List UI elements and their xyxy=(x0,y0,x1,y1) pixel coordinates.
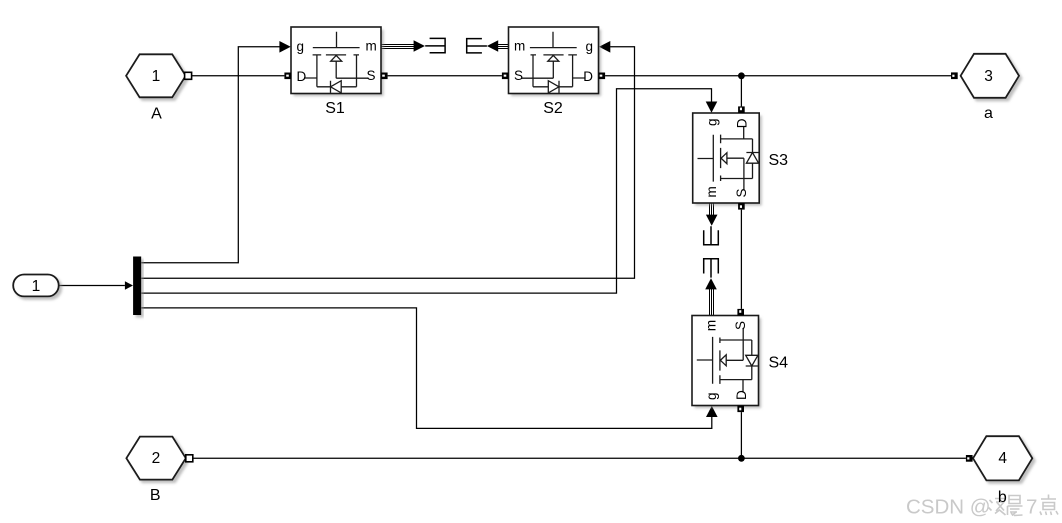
S1 port D square xyxy=(284,73,291,80)
svg-text:3: 3 xyxy=(984,68,993,85)
wire S3 S to S4 S xyxy=(740,210,742,309)
wire inport1 to demux xyxy=(59,281,133,290)
svg-text:S2: S2 xyxy=(543,100,563,117)
mosfet S1 xyxy=(291,27,381,117)
svg-text:2: 2 xyxy=(152,450,161,467)
open connector bracket left of S2 xyxy=(467,39,487,53)
demux xyxy=(133,257,141,316)
svg-text:CSDN @: CSDN @ xyxy=(906,496,991,519)
S3 m output bus and arrow xyxy=(706,203,718,225)
S3 port S square xyxy=(738,203,745,210)
inport 1 (stadium) xyxy=(13,275,59,297)
wire demux out3 to S3 g xyxy=(141,89,717,293)
S2 m output bus and arrow xyxy=(487,40,509,52)
port a hexagon 3 xyxy=(951,54,1019,122)
mosfet S3 (rotated) xyxy=(693,113,788,203)
port B hexagon 2 xyxy=(126,437,192,505)
svg-text:S1: S1 xyxy=(325,100,345,117)
node junction bottom xyxy=(738,455,745,462)
svg-text:a: a xyxy=(984,105,993,122)
watermark CSDN xyxy=(906,495,1058,519)
svg-text:7: 7 xyxy=(1026,496,1037,519)
svg-text:B: B xyxy=(150,487,161,504)
S4 port S square xyxy=(737,309,744,316)
open connector bracket right of S1 xyxy=(425,38,445,52)
svg-text:4: 4 xyxy=(998,450,1007,467)
S2 port D square xyxy=(599,73,606,80)
port A hexagon 1 xyxy=(126,54,192,122)
open connector bracket below S3 xyxy=(704,226,719,245)
mosfet S2 xyxy=(509,27,599,117)
S4 port D square xyxy=(737,406,744,413)
S4 m output bus and arrow xyxy=(705,278,717,315)
S1 m output bus and arrow xyxy=(381,40,425,52)
port b hexagon 4 xyxy=(966,436,1032,506)
S3 port D square xyxy=(738,106,745,113)
mosfet S4 (rotated) xyxy=(692,316,788,406)
svg-text:S4: S4 xyxy=(769,354,789,371)
svg-text:A: A xyxy=(151,106,162,123)
svg-text:1: 1 xyxy=(32,278,41,295)
S1 port S square xyxy=(381,73,388,80)
wire demux out1 to S1 g xyxy=(141,41,291,263)
S2 port S square xyxy=(502,73,509,80)
wire S4 D to bottom rail xyxy=(740,412,742,458)
wire demux out2 to S2 g xyxy=(141,41,634,278)
wire port2 B to port4 b xyxy=(193,457,966,459)
wire demux out4 to S4 g xyxy=(141,308,717,429)
node junction top xyxy=(738,72,745,79)
svg-text:b: b xyxy=(998,489,1007,506)
open connector bracket above S4 xyxy=(704,259,719,278)
wire port1 A to S1 D xyxy=(192,75,285,77)
wire S2 D to port3 a xyxy=(605,75,951,77)
wire S1 S to S2 S xyxy=(388,75,502,77)
svg-text:1: 1 xyxy=(152,68,161,85)
svg-text:S3: S3 xyxy=(769,152,789,169)
wire junction to S3 D xyxy=(740,76,742,107)
